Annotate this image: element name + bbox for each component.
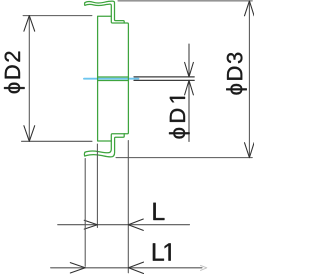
label L1 [153,243,171,260]
dim L extension line left [96,144,98,228]
dim phiD2 arrow down [24,126,35,142]
tube break line inner (wavy top-left, hugs cap right edge, wavy bottom-left) [85,4,128,153]
label phiD1 [169,97,190,139]
dim L / L1 extension line right [127,141,129,273]
dim phiD3 arrow up [245,1,255,16]
dim phiD1 extension line upper [134,76,194,78]
dim L1 arrow pointing left [129,262,144,273]
label phiD2 [4,52,25,94]
dim phiD3 arrow down [245,143,255,158]
centerline (cyan axis of part) [84,78,138,80]
dim L1 dimension line [51,267,202,269]
dim L dimension line [58,224,190,226]
dim phiD1 arrow down (tip at upper edge) [185,62,194,77]
dim phiD1 extension line lower [134,79,194,81]
dim phiD2 extension line top [23,15,92,17]
tube break line outer (bottom, steps down to wavy tail) [85,134,124,157]
tube break line outer (wavy, top-left, steps down) [85,1,124,23]
hole upper edge [98,76,129,78]
tube end tick bottom [83,152,86,156]
dim phiD1 leader below [188,80,190,141]
dim phiD2 arrow up [24,16,35,32]
dim phiD2 extension line bottom [22,140,93,142]
cap body outline (left face, top and bottom edges) [98,16,112,141]
label phiD3 [226,53,247,95]
dim phiD1 leader above [188,44,190,77]
dim L1 extension line left [84,159,86,267]
dim phiD3 dimension line [248,1,250,158]
tube end tick top [84,3,86,6]
hole lower edge [98,80,129,82]
dim phiD2 dimension line [28,16,30,142]
dim L arrow pointing left [128,219,143,230]
dim phiD3 extension line top [118,0,252,2]
label L [153,203,164,220]
dim L1 leader end arrow (faint) [201,265,207,270]
dim L1 arrow pointing right [70,263,85,273]
dim phiD3 extension line bottom [116,157,252,159]
dim phiD1 arrow up (tip at lower edge) [185,80,194,95]
dim L arrow pointing right [84,220,97,229]
